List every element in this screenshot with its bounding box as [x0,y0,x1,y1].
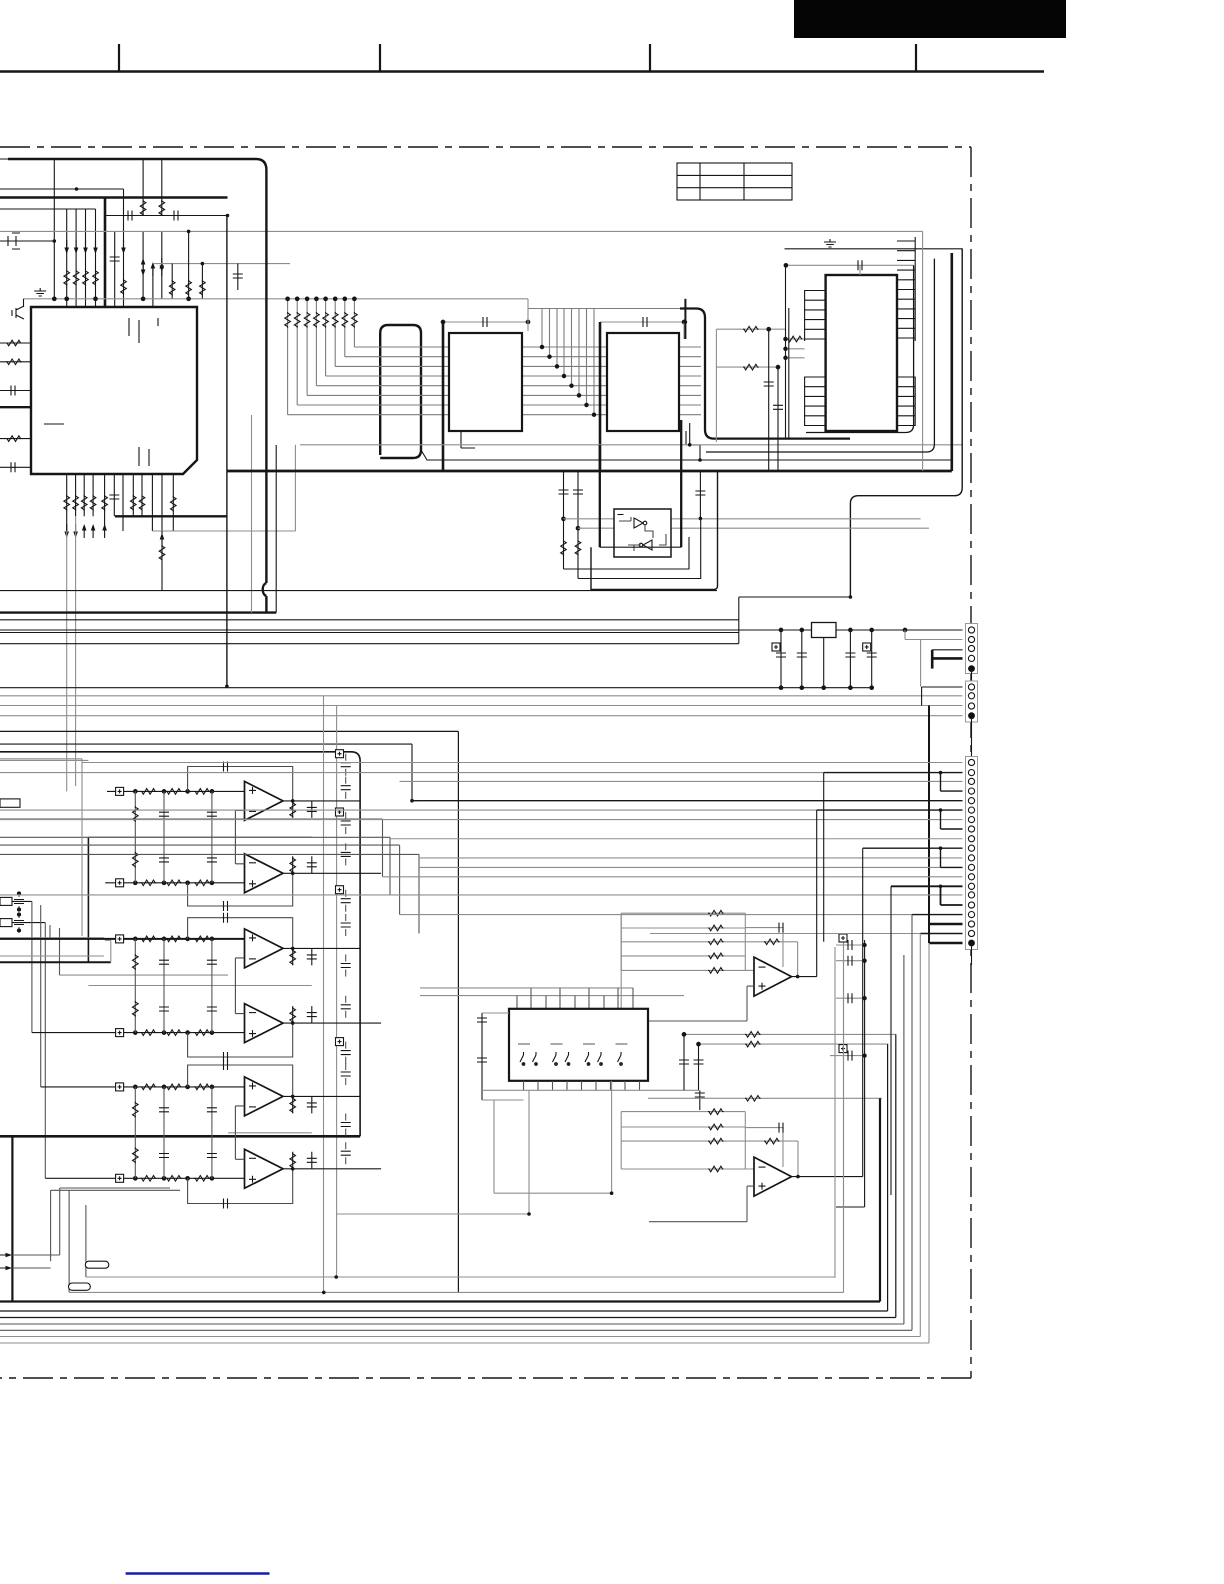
U4 left ladder [805,290,826,426]
power rail thick y962.2 [0,961,111,963]
band wire 3 [0,955,904,1324]
decoupling caps columns [564,471,579,579]
U6b output network [283,856,381,875]
op-amp U6e input chain [41,1083,245,1133]
op-amp U8b [754,1157,792,1196]
wires x785 to ladder [786,339,805,358]
wire x276.2 [275,445,277,613]
riser x295.4 [294,445,296,531]
gray wire y263.6 [153,263,290,265]
U6c inverting input stub [235,958,244,986]
CN3 thick pin18 [929,923,963,926]
opB feedback C [745,1128,783,1167]
op-amp U8a [754,957,792,996]
cap C y390.5 [11,386,15,396]
S4 [594,231,962,597]
resistor R y1034 [745,1032,761,1038]
wire x226.9 vertical long [226,216,228,687]
U6e inverting input stub [235,1106,244,1133]
op-amp U6f [245,1149,284,1188]
gray rail y298.8 [24,298,529,300]
header tick 2 [379,44,381,71]
U4 right ladder [897,237,915,426]
resistor array row of 8 [285,297,357,415]
wire y159 right segment [143,158,162,160]
gray wire CN1 pin2 [905,630,963,640]
stub x685.4 [684,299,686,339]
wire x684 [683,322,685,339]
riser x816.7 [816,810,818,977]
IC U7 analog switch [509,1009,648,1081]
cap column x700 [699,471,701,518]
resistor R y329 [743,326,759,332]
IC U2 [449,333,522,431]
CN1 to CN2 link [971,669,973,687]
CN3 pin17 black [912,914,963,916]
IC U4 [826,275,897,431]
header tick 4 [915,44,917,71]
header tick 3 [649,44,651,71]
nested loop y432.5 [806,265,914,432]
buffer B in U5 [639,540,652,550]
resistor R y1044 [745,1041,761,1047]
op-amp U6b input chain [105,837,244,887]
below U7 loop [494,1081,612,1193]
CN3 black feeds with steps [412,771,963,905]
CN2 to CN3 link [971,716,973,758]
op-amp U6a input chain [107,787,245,837]
IC U1 main processor [31,307,197,474]
power bus y197.5 [0,196,228,199]
U6b inverting input stub [235,837,244,864]
resonator wire y329.2 [716,328,785,330]
op-amp U6f input chain [45,1133,244,1183]
U1 interior bottom marks [44,424,149,466]
wire y800.7 [412,800,963,802]
long verticals x785.5 x788.8 [786,265,789,438]
resistor with arrow x162 [160,533,165,547]
resistor R y438.6 [6,436,22,442]
rail thick y751.8 [0,752,360,1137]
U1 left thick pin [0,406,31,408]
regulator center lead [823,638,825,688]
riser x823.7 [823,773,825,942]
U6f output network [283,1152,381,1171]
op-amp U6e [245,1077,284,1116]
U1 left pin wires [0,343,31,467]
U6e feedback loop [188,1060,293,1096]
connector CN2 [966,681,978,722]
S6 [0,696,458,1292]
band wire 5 [0,934,920,1337]
resistor R x161.8 [161,159,163,216]
connector CN1 [966,624,978,674]
gray riser x323.5 [323,696,325,1292]
S5 [0,420,978,943]
resistor R x172 [171,264,173,299]
input arrows bottom left [0,1253,12,1271]
header rule [0,70,1044,72]
R stack above opB [621,1109,798,1172]
U6c feedback loop [188,913,293,949]
resistor R x143 [142,159,144,216]
data bus wires U2-U3 [288,347,701,415]
power bus vertical x105 [104,198,107,308]
pull-down array columns above U1 [67,209,96,307]
U7 top pin stubs [517,988,633,1009]
resistors R below U1 right [131,495,137,511]
U6a inverting input stub [235,810,244,837]
revision table [677,163,792,200]
vertical x778 with cap [777,367,779,471]
gray wire y956 [0,955,104,957]
U6b feedback loop [188,873,293,911]
resistor R y361.8 [6,359,22,365]
header jumper at left y801 [0,799,20,807]
U8b output [796,1175,800,1179]
U7 bottom pins [524,1081,640,1090]
jumper J2 [69,1283,91,1290]
nested loop y452 [706,259,934,452]
crystal X1 [0,233,54,249]
left risers to lower op-amps [32,901,60,1178]
return wire y460 [421,450,951,460]
U6d output network [283,1006,381,1025]
band wire 2 [0,1034,896,1317]
wire y189 [0,188,124,190]
gray return y444.8 [300,444,962,446]
U6c output network [283,947,360,966]
U2 bypass cap wire [443,321,528,323]
IC U5 level shifter [614,509,671,557]
dash-dot page border bottom [0,1377,971,1379]
U6d feedback loop [188,1023,293,1062]
thick riser x12.4 [11,1136,13,1301]
resistor R x563 [561,540,567,556]
gray drop x922.6 [922,231,924,471]
U6d inverting input stub [235,986,244,1014]
op-amp U6c [245,929,284,968]
wire x123.5 column [123,189,125,307]
S3 [227,297,962,613]
U2 power vertical thick [442,322,445,471]
U5 pin1 dash [618,514,624,516]
wire y215.5 [105,215,228,217]
U5 loop A [564,537,690,569]
thick bus y612.6 [0,611,276,613]
wire y1098.3 [648,1097,882,1099]
U3 bottom pin [686,431,700,460]
op-amp U6d [245,1004,284,1043]
connector CN3 [966,757,978,950]
opA feedback R [764,939,780,945]
thick stub to CN1 [931,650,934,669]
stub x689.7 [689,423,691,445]
shared bias rail pair2 [88,985,311,987]
op-amp U6c input chain [0,935,245,986]
routing ladder column x382-420 [0,819,419,933]
routing strip U3-U4 [680,309,850,439]
resistors R array [64,270,70,286]
routing strip loop [380,325,421,458]
gray wire y937.8 [0,937,104,939]
U3 power vertical thick [599,322,602,471]
drop x929 thick [928,706,930,944]
wire y731.4 to drop x458.4 [0,731,458,1292]
resistor R x188.6 [188,231,190,298]
CN2 wires [0,696,963,716]
bottom rail y687.7 [0,687,872,689]
vertical fan to bus [528,309,594,415]
regulator REG1 [812,623,837,638]
IC U3 [607,333,679,431]
band wire 6 [0,943,929,1343]
cap C x850.4 [849,630,851,688]
band wire 1 [0,1044,888,1311]
opB feedback R [764,1138,780,1144]
gray wire y518.8 [564,518,921,520]
resistor R y1098 [745,1096,761,1102]
U5 bottom tie [600,546,681,548]
header tick 1 [118,44,120,71]
cap C x801.8 [801,630,803,688]
loop y495.7 [850,249,962,598]
cap x699.8 below [699,1090,701,1110]
resistor R y367 [743,364,759,370]
S9 [0,915,929,1343]
dash-dot page border top [0,146,971,148]
drop x920.6 [920,640,922,687]
long rail y590.6 [0,590,717,592]
riser x529 tall [337,1090,529,1214]
wire y744.1 to drop x412 [0,744,412,801]
wire y367.1 [716,366,778,368]
caps x684 x698 [684,1034,699,1090]
gray wire y231.4 long [0,230,923,232]
gray wire y975.1 [60,974,229,976]
cap C with polarity x871.7 [871,630,873,688]
jumper J1 [85,1261,109,1268]
cap C U4 [858,260,862,270]
gray wire y1277 [86,947,835,1278]
resistor R x202.4 [201,264,203,299]
cap C near bus [114,231,116,307]
nested loop columns bottom left [12,1188,180,1292]
transistor Q1 left of U1 [12,299,24,319]
wire top rail y159 [0,158,54,160]
hop over y591 [263,583,267,613]
ground G2 [824,239,836,247]
U8a bottom loop [649,986,754,1021]
U7 bottom rail [482,1089,699,1091]
riser x891 [890,886,892,1195]
vertical x716.4 [715,329,717,442]
long sense columns x66 x75 [67,516,76,791]
U7 left cap pair [481,1013,483,1100]
shared bias rail pair3 [228,1132,312,1134]
main bus y471 thick [227,470,952,473]
riser x862.7 [862,848,864,1176]
S2 [0,159,923,791]
thick routing elbow top [8,159,266,583]
S7 [337,910,896,1240]
U1 bottom pin columns [67,474,162,531]
step pair pins6-8 [817,810,963,829]
rail y597 [739,596,851,598]
U6a output network [283,799,360,818]
U5 loop C [591,471,718,589]
U5 internal wiring [619,517,666,551]
arrows below U1 [64,524,107,538]
U7 rail x621 to R stack [620,913,622,1009]
wire y339 with resistor to ladder [787,336,803,342]
wire vertical x54.3 [53,159,55,299]
node x54 [53,239,57,243]
arrows on array [64,240,125,254]
wire x528 down [527,299,529,331]
CN3 pin19 black [920,933,962,935]
gray wire y531 [152,530,295,532]
dash-dot page border right [970,147,972,1378]
CN3 feed wires gray [0,763,963,934]
riser x251.5 [251,415,253,613]
U6f inverting input stub [235,1133,244,1160]
wire y308.5 to strip [594,308,680,310]
cap C below U1 [109,495,119,499]
resistors R below U1 [64,495,70,511]
opA feedback C [745,928,783,967]
thick verticals around U5 [600,420,681,547]
wire y209 [0,208,96,210]
rail y630 to connector [0,629,963,631]
resistor R y343 [6,340,22,346]
resistor R x578 [575,540,581,556]
riser x82 [0,759,82,936]
step pair pins2-4 [824,773,963,792]
ground near U1 [34,288,46,296]
gray wire y528.2 [578,527,929,529]
CN3 bottom stub [971,943,973,965]
title block black banner [794,0,1066,38]
cap C y215 left [128,211,132,221]
gray wire y1292.4 [69,955,843,1292]
U1 interior pin1 marks [129,318,158,343]
band wire 4 [0,915,912,1331]
op-amp U6b [245,854,284,893]
arrow pair columns x143-162 [143,231,162,307]
U8a output [796,975,800,979]
rail x88.4 [87,837,89,962]
U4 top pin stub [859,265,861,275]
step pair pins14-16 [891,886,963,905]
op-amp U6a [245,781,284,820]
input connector block IN2 [0,913,45,932]
elbow x738.8 [738,597,740,644]
step pair pins10-12 [863,848,963,867]
vertical x768.7 with cap [768,329,770,471]
cap C y215 right [174,211,178,221]
gray wires above U7 [420,988,684,996]
U2 bottom pin [461,431,475,448]
cap C x237.8 [237,264,239,290]
U3 bypass cap wire [600,321,684,323]
R stack above opA [621,910,797,973]
U8b bottom loop [649,1186,754,1222]
gray wire y760.4 [0,759,88,761]
U6a feedback loop [188,762,293,801]
cap C U3 [643,317,647,327]
gray riser x336.6 [336,706,338,1278]
CN3 thick pin20 [929,942,963,945]
buffer A in U5 [634,518,647,528]
U6f feedback loop [188,1169,293,1209]
wire pair y1034 y1044 [684,1034,896,1044]
S8 [0,757,978,1196]
elco row right A [830,934,866,1240]
decoupling cap column x345.7 [336,750,351,1164]
thin rails to elbow [0,620,739,644]
U6e output network [283,1095,360,1114]
op-amp U6d input chain [32,986,245,1037]
main bus y1136.3 [0,1135,360,1138]
U5 loop B [578,519,701,579]
ground wire y248.8 [785,248,963,250]
cap C U2 [483,317,487,327]
cap C y467.3 [11,462,15,472]
shared bias rail pair1 [88,836,311,838]
input connector block IN1 [0,892,32,911]
bypass wire y265.3 [786,264,914,266]
supply bus y516.3 [115,515,227,517]
footer link line [126,1572,270,1575]
U7 switch glyphs [518,1044,628,1065]
bus end elbow x951.8 [950,253,953,471]
cap C with polarity x781 [780,630,782,688]
CN2 pin1 wire [922,687,963,706]
main bottom bus y1301.5 [0,1098,880,1301]
